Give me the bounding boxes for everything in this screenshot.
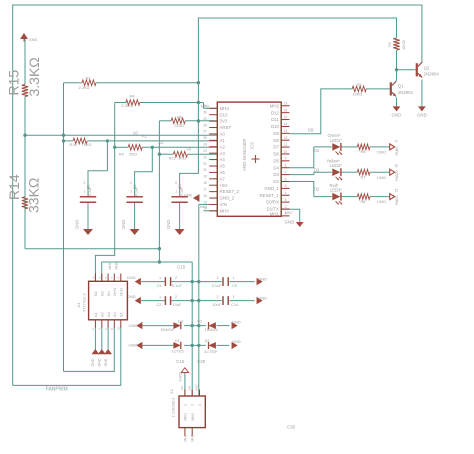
svg-text:4: 4 — [98, 328, 102, 330]
svg-text:3: 3 — [285, 198, 287, 202]
svg-text:X2: X2 — [169, 389, 174, 394]
svg-text:29: 29 — [203, 117, 207, 121]
svg-text:B2: B2 — [93, 291, 98, 296]
svg-text:2: 2 — [175, 295, 177, 299]
svg-text:24: 24 — [203, 143, 207, 147]
svg-text:GND: GND — [127, 294, 136, 299]
svg-text:2N3904: 2N3904 — [424, 72, 440, 77]
svg-text:C30: C30 — [197, 359, 206, 364]
svg-text:14: 14 — [284, 122, 288, 126]
svg-text:26: 26 — [203, 104, 207, 108]
svg-text:3: 3 — [98, 277, 102, 279]
svg-text:7: 7 — [110, 277, 114, 279]
svg-text:0.1uF: 0.1uF — [88, 186, 92, 196]
svg-text:GND: GND — [91, 358, 95, 366]
svg-text:ARD-NANO30IP: ARD-NANO30IP — [242, 138, 247, 171]
svg-text:GND: GND — [232, 339, 241, 344]
svg-text:1N4004: 1N4004 — [205, 328, 218, 332]
svg-text:100Ω: 100Ω — [377, 200, 386, 204]
svg-text:GND: GND — [258, 276, 267, 281]
svg-text:3V3: 3V3 — [220, 119, 228, 124]
svg-text:7: 7 — [285, 170, 287, 174]
svg-text:20: 20 — [203, 168, 207, 172]
svg-text:19: 19 — [203, 175, 207, 179]
svg-text:1CTE5: 1CTE5 — [172, 350, 184, 354]
svg-text:LED3*: LED3* — [330, 188, 342, 193]
svg-text:21: 21 — [203, 162, 207, 166]
svg-text:220Ω: 220Ω — [175, 123, 184, 128]
svg-text:10: 10 — [395, 164, 399, 168]
svg-text:100Ω: 100Ω — [377, 151, 386, 155]
svg-text:LED1*: LED1* — [330, 138, 342, 143]
svg-text:5KΩ: 5KΩ — [129, 152, 137, 157]
svg-text:A1: A1 — [220, 138, 226, 143]
svg-text:GND: GND — [127, 275, 136, 280]
svg-text:PAD11: PAD11 — [395, 195, 399, 205]
svg-text:D1: D1 — [175, 339, 180, 343]
svg-text:0.1uF: 0.1uF — [172, 284, 182, 288]
svg-text:0.1uF: 0.1uF — [180, 186, 184, 196]
svg-text:10KΩ: 10KΩ — [401, 40, 406, 50]
svg-text:3.3KΩ: 3.3KΩ — [26, 57, 42, 96]
svg-text:C14: C14 — [231, 303, 238, 307]
svg-text:Q2: Q2 — [424, 65, 430, 70]
svg-text:RESET_2: RESET_2 — [220, 189, 240, 194]
svg-text:D4: D4 — [314, 148, 320, 153]
svg-text:1: 1 — [183, 404, 187, 406]
svg-text:10uF: 10uF — [173, 303, 182, 307]
svg-text:30: 30 — [203, 111, 207, 115]
svg-text:3: 3 — [198, 404, 202, 406]
svg-text:1: 1 — [233, 276, 235, 280]
svg-text:MH1: MH1 — [112, 288, 117, 296]
svg-text:14: 14 — [203, 207, 207, 211]
svg-text:9: 9 — [285, 157, 287, 161]
svg-text:15: 15 — [284, 115, 288, 119]
svg-text:GND: GND — [177, 373, 182, 382]
svg-text:GND: GND — [129, 323, 138, 328]
svg-text:3.3KΩ: 3.3KΩ — [121, 103, 132, 108]
svg-text:U1: U1 — [76, 303, 81, 308]
svg-text:12: 12 — [284, 136, 288, 140]
svg-text:MH2: MH2 — [119, 288, 124, 296]
svg-text:11: 11 — [395, 188, 399, 192]
svg-text:+5V: +5V — [180, 386, 184, 391]
svg-text:1: 1 — [233, 295, 235, 299]
svg-text:6: 6 — [104, 328, 108, 330]
svg-text:D4: D4 — [273, 165, 279, 170]
svg-text:R10: R10 — [70, 142, 78, 147]
svg-text:4: 4 — [285, 191, 287, 195]
svg-text:0.1uF: 0.1uF — [135, 186, 139, 196]
svg-text:C15: C15 — [176, 359, 185, 364]
svg-text:C30: C30 — [287, 425, 296, 430]
svg-text:D3: D3 — [314, 168, 320, 173]
svg-text:6: 6 — [285, 177, 287, 181]
svg-text:13: 13 — [284, 129, 288, 133]
svg-text:25: 25 — [203, 136, 207, 140]
svg-text:10: 10 — [284, 150, 288, 154]
svg-text:10KΩ: 10KΩ — [353, 91, 363, 96]
svg-text:B4: B4 — [106, 290, 111, 296]
svg-text:D12: D12 — [271, 110, 280, 115]
svg-text:2: 2 — [91, 328, 95, 330]
svg-text:D8: D8 — [273, 138, 279, 143]
svg-text:GND: GND — [75, 220, 80, 229]
svg-text:2: 2 — [84, 181, 86, 185]
svg-text:GND_1: GND_1 — [264, 186, 279, 191]
svg-text:5: 5 — [104, 277, 108, 279]
svg-text:PAD10: PAD10 — [395, 170, 399, 180]
svg-text:2: 2 — [175, 276, 177, 280]
svg-text:VIN: VIN — [220, 202, 227, 207]
svg-text:1CTE5*: 1CTE5* — [204, 350, 218, 354]
svg-text:R9: R9 — [119, 152, 124, 157]
svg-text:GND_2: GND_2 — [220, 196, 235, 201]
svg-text:2: 2 — [217, 295, 219, 299]
svg-text:1: 1 — [91, 277, 95, 279]
svg-text:Q1: Q1 — [398, 83, 404, 88]
svg-text:MH1: MH1 — [184, 413, 188, 421]
svg-text:R7: R7 — [361, 175, 366, 179]
svg-text:GND: GND — [417, 113, 427, 118]
svg-text:2: 2 — [130, 181, 132, 185]
svg-text:2: 2 — [175, 181, 177, 185]
svg-text:18: 18 — [203, 181, 207, 185]
svg-text:B1: B1 — [119, 312, 124, 317]
svg-text:10: 10 — [117, 326, 121, 330]
svg-text:R5: R5 — [177, 114, 182, 119]
svg-text:MH3: MH3 — [220, 106, 230, 111]
svg-text:R8: R8 — [361, 200, 366, 204]
svg-text:GND: GND — [195, 384, 199, 392]
svg-text:B3: B3 — [100, 291, 105, 296]
svg-text:D3: D3 — [273, 172, 279, 177]
svg-text:16: 16 — [203, 194, 207, 198]
svg-text:R4: R4 — [130, 93, 136, 98]
svg-text:2: 2 — [191, 404, 195, 406]
svg-text:A3: A3 — [186, 146, 192, 151]
svg-text:22: 22 — [203, 155, 207, 159]
svg-text:13: 13 — [284, 102, 288, 106]
svg-text:VIN: VIN — [187, 386, 191, 391]
svg-text:4717412-2: 4717412-2 — [82, 293, 87, 312]
svg-text:A0: A0 — [220, 132, 226, 137]
svg-text:GND: GND — [104, 358, 108, 366]
svg-text:MH1: MH1 — [108, 262, 112, 269]
svg-text:R3: R3 — [86, 76, 91, 81]
svg-text:R6: R6 — [361, 150, 366, 154]
svg-text:MH1: MH1 — [270, 212, 280, 217]
svg-text:C2: C2 — [157, 303, 162, 307]
svg-text:A3: A3 — [220, 151, 226, 156]
svg-text:2.2KΩ: 2.2KΩ — [79, 85, 90, 90]
svg-text:10uF: 10uF — [212, 303, 221, 307]
svg-text:16: 16 — [284, 108, 288, 112]
svg-text:8: 8 — [110, 328, 114, 330]
svg-text:D10: D10 — [271, 124, 280, 129]
svg-text:1N4004: 1N4004 — [160, 328, 173, 332]
svg-text:1: 1 — [159, 276, 161, 280]
svg-text:1: 1 — [285, 212, 287, 216]
svg-text:D3: D3 — [197, 320, 202, 324]
svg-text:A2: A2 — [158, 140, 164, 145]
svg-text:A1: A1 — [93, 312, 98, 317]
svg-text:A6: A6 — [220, 170, 226, 175]
svg-text:MH1: MH1 — [183, 434, 187, 441]
svg-text:GND: GND — [285, 220, 295, 225]
svg-text:MH2: MH2 — [114, 262, 118, 269]
svg-text:D4: D4 — [178, 320, 183, 324]
svg-text:2N3904: 2N3904 — [398, 90, 414, 95]
svg-text:28: 28 — [203, 123, 207, 127]
svg-text:11: 11 — [284, 143, 288, 147]
svg-text:GND: GND — [129, 343, 138, 348]
svg-text:MH4: MH4 — [220, 208, 230, 213]
svg-text:R1: R1 — [357, 82, 362, 87]
svg-text:FANPWM: FANPWM — [46, 386, 68, 392]
svg-text:9: 9 — [395, 140, 399, 142]
svg-text:23: 23 — [203, 149, 207, 153]
svg-text:GND: GND — [166, 220, 171, 229]
svg-text:A2: A2 — [100, 312, 105, 317]
svg-text:17: 17 — [203, 187, 207, 191]
svg-text:1: 1 — [175, 190, 177, 194]
svg-text:GND: GND — [98, 358, 102, 366]
svg-text:1: 1 — [130, 190, 132, 194]
svg-text:MH2: MH2 — [191, 434, 195, 441]
svg-text:D9: D9 — [308, 127, 314, 132]
svg-text:GND: GND — [232, 319, 241, 324]
svg-text:D6: D6 — [273, 152, 279, 157]
svg-text:5KΩ: 5KΩ — [84, 142, 92, 147]
svg-text:D2: D2 — [273, 179, 279, 184]
svg-text:MH2: MH2 — [270, 103, 280, 108]
svg-text:5: 5 — [285, 184, 287, 188]
svg-text:PAD9: PAD9 — [395, 147, 399, 156]
svg-text:A2: A2 — [220, 144, 226, 149]
svg-text:R2: R2 — [387, 42, 392, 47]
svg-text:A1: A1 — [142, 134, 148, 139]
svg-text:R14: R14 — [6, 174, 22, 200]
svg-text:A3: A3 — [106, 312, 111, 317]
svg-text:D9: D9 — [273, 131, 279, 136]
svg-text:2: 2 — [217, 276, 219, 280]
svg-text:D13: D13 — [220, 112, 229, 117]
svg-text:A4: A4 — [112, 311, 117, 317]
svg-text:+5V: +5V — [220, 183, 228, 188]
svg-text:0.1uF: 0.1uF — [212, 284, 222, 288]
svg-text:R12: R12 — [169, 156, 176, 161]
svg-text:D2: D2 — [314, 187, 320, 192]
svg-text:1: 1 — [84, 190, 86, 194]
svg-text:A7: A7 — [220, 176, 226, 181]
svg-text:A5: A5 — [220, 164, 226, 169]
svg-text:D2: D2 — [205, 339, 210, 343]
svg-text:1-178293-2: 1-178293-2 — [171, 398, 176, 418]
svg-text:C5: C5 — [232, 284, 237, 288]
svg-text:D5: D5 — [273, 158, 279, 163]
svg-text:GND: GND — [392, 113, 402, 118]
svg-text:MH2: MH2 — [191, 413, 195, 421]
svg-text:15: 15 — [203, 200, 207, 204]
svg-text:AREF: AREF — [220, 125, 232, 130]
svg-text:C15: C15 — [177, 265, 186, 270]
svg-text:1: 1 — [159, 295, 161, 299]
svg-text:C4: C4 — [157, 284, 162, 288]
svg-text:GND: GND — [121, 220, 126, 229]
svg-text:9: 9 — [117, 277, 121, 279]
svg-text:100Ω: 100Ω — [377, 176, 386, 180]
svg-text:R15: R15 — [5, 70, 21, 96]
svg-text:IC3: IC3 — [250, 142, 255, 149]
svg-text:A4: A4 — [220, 157, 226, 162]
svg-text:GND: GND — [258, 295, 267, 300]
svg-text:8: 8 — [285, 164, 287, 168]
svg-text:D0/RX: D0/RX — [266, 200, 279, 205]
svg-text:GND: GND — [29, 38, 38, 42]
svg-text:RESET_1: RESET_1 — [259, 193, 279, 198]
svg-text:3KΩ: 3KΩ — [178, 156, 186, 161]
svg-text:D7: D7 — [273, 145, 279, 150]
svg-text:A0: A0 — [133, 131, 139, 136]
svg-text:D11: D11 — [271, 117, 279, 122]
svg-text:LED2*: LED2* — [330, 163, 342, 168]
svg-text:2: 2 — [285, 205, 287, 209]
svg-text:27: 27 — [203, 130, 207, 134]
svg-text:33KΩ: 33KΩ — [26, 178, 42, 213]
